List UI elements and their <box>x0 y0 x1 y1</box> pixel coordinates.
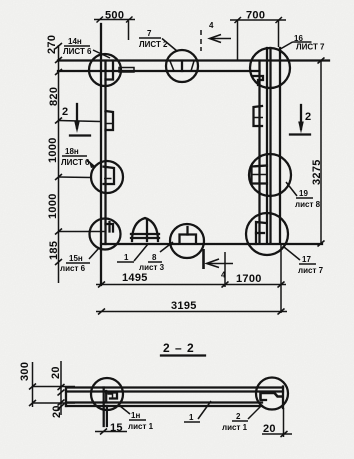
top edge lower line <box>58 70 260 72</box>
label 1 (dome) <box>117 244 148 262</box>
section dim 20 chain <box>50 361 65 418</box>
section mark 2 right <box>290 105 311 135</box>
dim text 1000 lower <box>47 193 59 219</box>
callout circle top-left <box>89 54 121 86</box>
dimension 500 <box>94 10 135 41</box>
label 2 лист 1 <box>222 405 262 432</box>
left wall inner line <box>104 61 106 244</box>
mid-left joint detail <box>104 167 115 184</box>
bottom-left joint detail <box>106 222 114 232</box>
callout circle bottom-middle <box>170 224 204 258</box>
section mark 4 bottom <box>204 249 234 280</box>
bottom-middle joint detail (table) <box>180 227 197 244</box>
left wall notch <box>106 111 114 130</box>
chain tick y262 <box>55 259 62 265</box>
callout circle mid-right <box>249 154 291 196</box>
bottom edge line <box>101 243 322 245</box>
section dim 15 <box>95 422 127 435</box>
section callout circle left <box>91 378 123 410</box>
section dim 300 <box>19 362 75 407</box>
label 18н лист 6 <box>61 147 95 168</box>
callout circle bottom-left <box>90 219 121 250</box>
label 19 лист 8 <box>286 182 321 209</box>
bottom dim row 1 line <box>96 243 286 313</box>
top edge upper line <box>58 59 329 61</box>
label 1н лист 1 <box>120 406 154 431</box>
left wall outer line <box>100 24 102 285</box>
label 14н лист 6 <box>63 37 110 58</box>
callout circle top-middle <box>166 50 198 82</box>
right wall line d <box>279 48 281 243</box>
label 8 лист 3 <box>139 242 173 272</box>
dimension 700 <box>230 10 286 61</box>
section slab bottom line 1 <box>66 401 262 403</box>
label 16 лист 7 <box>280 34 326 52</box>
chain tick y72 <box>55 69 62 75</box>
callout circle mid-left <box>91 161 123 193</box>
label 7 лист 2 <box>139 29 177 51</box>
section slab top line 2 <box>66 390 283 392</box>
label 1 (slab) <box>184 401 211 422</box>
dimension 3275 <box>311 58 325 247</box>
section left legs <box>104 388 107 427</box>
chain tick y177 <box>55 174 91 180</box>
label 17 лист 7 <box>284 247 324 275</box>
section callout circle right <box>256 378 288 410</box>
bottom dim row 2 line 3195 <box>96 300 287 315</box>
bottom edge left extension <box>58 231 106 233</box>
top-right joint detail <box>253 76 263 85</box>
mid-right joint detail <box>252 166 268 184</box>
right wall notch <box>254 106 264 126</box>
section mark 4 top <box>201 21 231 51</box>
top-middle joint detail <box>170 61 194 71</box>
section right joint detail <box>261 387 284 409</box>
chain tick y60 <box>55 57 62 63</box>
dome detail at bottom edge <box>131 218 159 241</box>
dim text 1000 upper <box>47 137 59 163</box>
chain tick y231 <box>55 229 62 235</box>
section title 2-2 <box>161 341 205 356</box>
section slab bottom line 2 <box>66 405 262 407</box>
right wall line a <box>258 61 260 243</box>
right wall line b <box>266 48 268 243</box>
section mark 2 left <box>62 104 90 136</box>
section left joint detail <box>106 391 117 402</box>
dim text 820 <box>48 87 60 106</box>
section dim 20 right <box>262 408 292 437</box>
right wall line c <box>269 48 271 243</box>
dim text 185 <box>48 241 60 260</box>
callout circle top-right <box>250 48 290 88</box>
section slab left end <box>65 388 67 407</box>
bottom-right joint detail (F shape) <box>256 222 266 244</box>
left dimension chain line <box>58 45 60 283</box>
dim text 270 <box>46 35 58 54</box>
top-left joint detail <box>106 61 135 80</box>
chain tick y46 <box>55 43 62 49</box>
section slab top line 1 <box>66 386 283 388</box>
callout circle bottom-right <box>246 213 288 255</box>
chain tick y120 <box>55 118 100 124</box>
label 15н лист 6 <box>60 248 99 273</box>
